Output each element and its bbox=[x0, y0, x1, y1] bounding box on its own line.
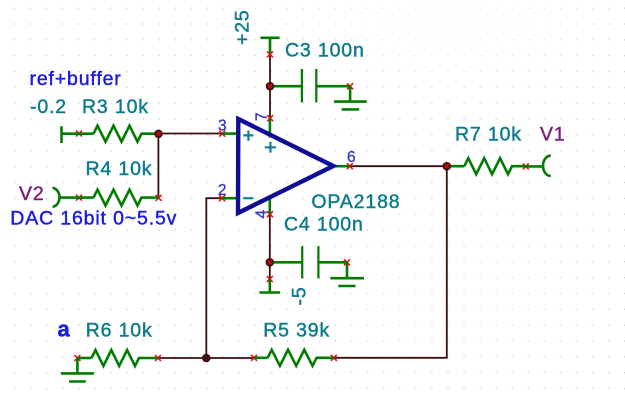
svg-text:V1: V1 bbox=[540, 124, 566, 146]
svg-text:a: a bbox=[58, 317, 71, 342]
svg-text:R4 10k: R4 10k bbox=[86, 158, 153, 180]
svg-text:V2: V2 bbox=[19, 183, 45, 205]
svg-text:C4 100n: C4 100n bbox=[284, 213, 364, 235]
svg-text:2: 2 bbox=[218, 182, 227, 199]
svg-text:7: 7 bbox=[254, 112, 271, 121]
svg-text:DAC 16bit 0~5.5v: DAC 16bit 0~5.5v bbox=[10, 207, 177, 229]
svg-text:R7 10k: R7 10k bbox=[455, 124, 522, 146]
svg-text:+25: +25 bbox=[232, 9, 254, 45]
svg-text:-0.2: -0.2 bbox=[30, 96, 67, 118]
svg-text:R6 10k: R6 10k bbox=[86, 320, 153, 342]
svg-text:C3 100n: C3 100n bbox=[285, 40, 365, 62]
svg-text:-5: -5 bbox=[288, 286, 310, 305]
svg-text:6: 6 bbox=[347, 149, 356, 166]
svg-text:OPA2188: OPA2188 bbox=[311, 191, 400, 213]
svg-text:R5 39k: R5 39k bbox=[263, 320, 330, 342]
svg-text:ref+buffer: ref+buffer bbox=[30, 68, 122, 90]
svg-text:R3 10k: R3 10k bbox=[82, 96, 149, 118]
svg-text:3: 3 bbox=[218, 118, 227, 135]
svg-text:4: 4 bbox=[254, 210, 271, 219]
